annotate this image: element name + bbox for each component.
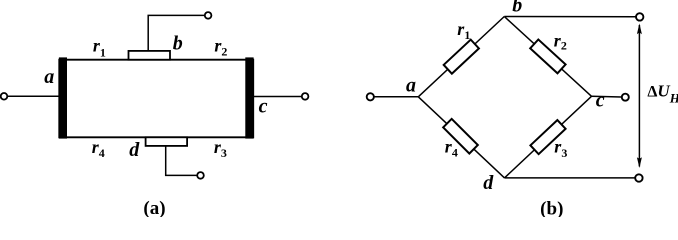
wire d-c (505, 96, 592, 178)
resistor r3 (530, 120, 565, 154)
Hall plate body (59, 60, 253, 138)
terminal circle bottom right (635, 174, 642, 181)
wire b-c (504, 17, 591, 97)
svg-text:d: d (483, 172, 494, 194)
wire electrode c to right terminal (254, 96, 302, 98)
wire a-b (418, 17, 504, 97)
electrode b (top tab) (129, 51, 171, 60)
wire from electrode b to top terminal (148, 15, 205, 51)
electrode c (right black bar) (245, 57, 253, 138)
terminal circle top right (636, 13, 643, 20)
arrowhead up (637, 23, 642, 34)
terminal circle bottom (d) (197, 172, 204, 179)
svg-text:a: a (44, 66, 54, 88)
svg-text:d: d (129, 139, 140, 161)
resistor r2 (530, 39, 565, 73)
terminal circle right (c) (302, 93, 309, 100)
wire left terminal to node a (374, 96, 419, 98)
resistor r1 (444, 40, 479, 74)
svg-text:b: b (512, 0, 522, 17)
terminal circle c (622, 94, 629, 101)
terminal circle top (b) (205, 12, 212, 19)
wire b to top-right terminal (504, 16, 635, 18)
terminal circle left (a) (1, 93, 8, 100)
arrowhead down (637, 157, 642, 168)
wire left terminal to electrode a (7, 95, 59, 97)
wire a-d (418, 97, 504, 178)
terminal circle left (367, 93, 374, 100)
wire c to terminal (592, 95, 622, 98)
svg-text:c: c (259, 95, 268, 117)
voltage arrow shaft (638, 25, 640, 167)
wire d to bottom-right terminal (505, 177, 635, 179)
resistor r4 (443, 119, 478, 154)
svg-text:c: c (596, 90, 605, 112)
svg-text:a: a (406, 75, 416, 97)
svg-text:b: b (173, 33, 183, 55)
wire from electrode d to bottom terminal (166, 146, 197, 176)
electrode d (bottom tab) (146, 137, 188, 146)
electrode a (left black bar) (59, 57, 67, 138)
svg-text:(b): (b) (540, 199, 563, 218)
svg-text:(a): (a) (143, 198, 165, 217)
